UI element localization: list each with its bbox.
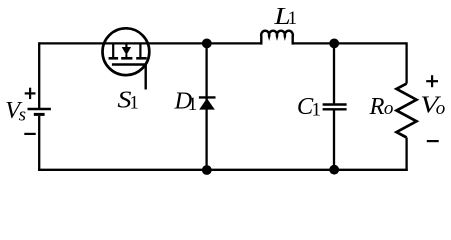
- wire left lower: [38, 116, 40, 171]
- wire right lower: [405, 138, 407, 171]
- capacitor bottom plate: [323, 108, 347, 110]
- svg-text:1: 1: [288, 8, 298, 29]
- svg-text:1: 1: [188, 94, 198, 115]
- mosfet body circle: [103, 28, 150, 75]
- wire top right segment: [293, 42, 407, 44]
- mosfet body stem lower: [125, 54, 127, 57]
- svg-text:1: 1: [129, 93, 139, 114]
- mosfet drain contact bar: [109, 57, 119, 60]
- diode D1: [199, 97, 216, 109]
- mosfet source stub: [139, 43, 141, 57]
- minus sign right: [427, 140, 439, 142]
- wire right upper: [405, 42, 407, 83]
- node dot top D1: [202, 39, 212, 49]
- transistor S1 (MOSFET): [103, 28, 150, 89]
- plus sign right: [426, 75, 438, 87]
- inductor L1: [261, 31, 293, 45]
- mosfet body arrow: [122, 47, 131, 55]
- diode triangle: [199, 98, 215, 109]
- node dot top C1: [329, 39, 339, 49]
- mosfet source contact bar: [136, 57, 147, 60]
- capacitor top plate: [323, 103, 347, 105]
- node dot bottom C1: [329, 165, 339, 175]
- capacitor C1: [323, 105, 347, 110]
- svg-text:s: s: [19, 104, 26, 125]
- plus sign left: [25, 88, 36, 99]
- mosfet body contact bar: [121, 57, 132, 60]
- svg-text:R: R: [369, 93, 385, 120]
- diode cathode bar: [199, 96, 216, 98]
- mosfet gate lead: [112, 65, 146, 90]
- svg-text:1: 1: [312, 100, 322, 121]
- wire C1 upper: [333, 43, 335, 103]
- wire left upper: [38, 42, 40, 108]
- wire top left segment: [39, 42, 261, 44]
- mosfet body stem: [125, 43, 127, 47]
- resistor Ro: [397, 84, 417, 138]
- mosfet drain stub: [112, 43, 114, 57]
- wire bottom: [38, 169, 408, 171]
- svg-text:o: o: [436, 98, 446, 119]
- wire D1 branch: [205, 43, 207, 169]
- node dot bottom D1: [202, 165, 212, 175]
- minus sign left: [24, 133, 35, 135]
- svg-text:o: o: [384, 98, 394, 119]
- source Vs battery bottom plate: [34, 113, 45, 116]
- wire C1 lower: [333, 110, 335, 169]
- source Vs battery top plate: [28, 108, 51, 110]
